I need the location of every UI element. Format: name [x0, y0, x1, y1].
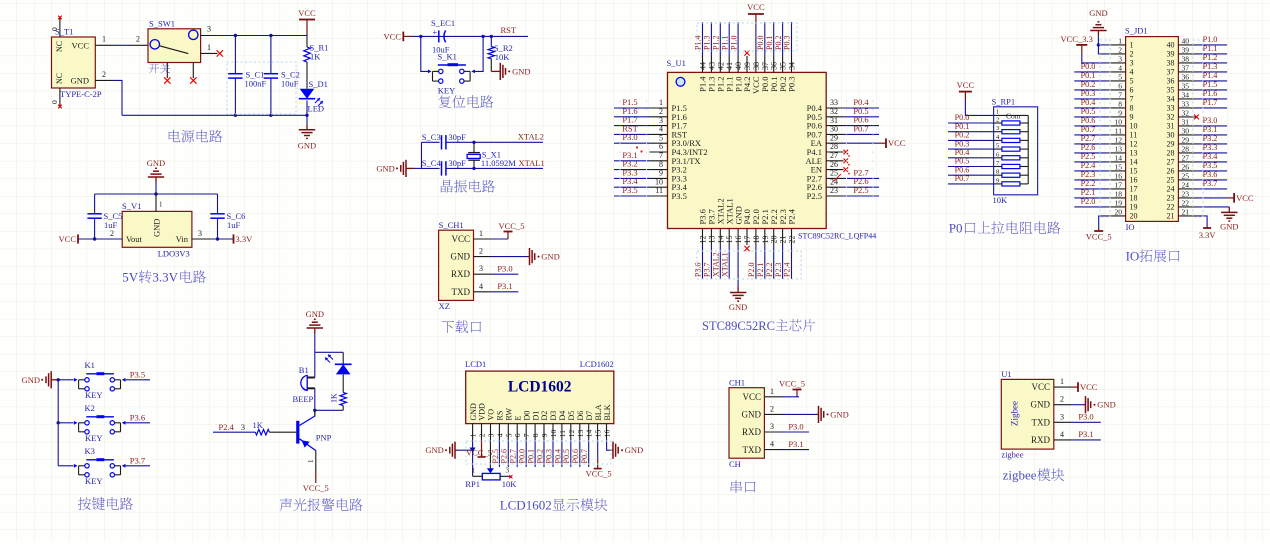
- svg-text:S_C4: S_C4: [422, 158, 442, 168]
- power port VCC LDO left: [59, 234, 78, 244]
- svg-text:9: 9: [996, 177, 999, 184]
- pin 16 BLK of LCD1602: [603, 404, 612, 439]
- node junction D1 bottom rail: [305, 100, 308, 124]
- svg-text:41: 41: [725, 62, 734, 70]
- crystal S_X1 11.0592M: [467, 142, 516, 168]
- svg-text:3: 3: [241, 423, 245, 432]
- wire alarm bottom junction: [313, 409, 343, 416]
- svg-text:1K: 1K: [330, 393, 339, 403]
- pin 7 left of S_JD1: [1074, 89, 1133, 104]
- svg-text:D4: D4: [558, 411, 567, 421]
- label STC89C52RC主芯片: [702, 319, 815, 333]
- svg-text:P0.5: P0.5: [1081, 107, 1096, 116]
- svg-text:2: 2: [110, 229, 114, 238]
- svg-text:21: 21: [779, 236, 788, 244]
- pin 2 GND serial: [764, 404, 848, 423]
- svg-text:P3.5: P3.5: [130, 370, 145, 380]
- svg-text:33: 33: [1167, 104, 1175, 113]
- svg-text:34: 34: [788, 62, 797, 70]
- svg-text:S_V1: S_V1: [122, 201, 141, 211]
- svg-text:RW: RW: [505, 408, 514, 421]
- capacitor S_C5 1uF: [87, 194, 122, 241]
- pin 35 right of S_JD1: [1167, 80, 1228, 95]
- svg-text:3.3V: 3.3V: [152, 270, 178, 285]
- pin 17 P4.0 bottom of U1: [742, 209, 752, 251]
- svg-text:P2.3: P2.3: [774, 263, 783, 277]
- svg-text:P0.3: P0.3: [787, 77, 797, 92]
- svg-text:8: 8: [531, 433, 540, 437]
- svg-text:GND: GND: [306, 309, 324, 319]
- pin 6 E of LCD1602: [509, 416, 523, 468]
- svg-text:38: 38: [1182, 54, 1190, 63]
- label 下载口: [441, 320, 481, 333]
- svg-text:27: 27: [1167, 158, 1175, 167]
- svg-text:GND: GND: [1031, 400, 1051, 410]
- svg-text:1: 1: [479, 229, 483, 238]
- svg-text:P3.2: P3.2: [1203, 134, 1218, 143]
- svg-text:1: 1: [659, 98, 663, 107]
- svg-text:21: 21: [1182, 207, 1190, 216]
- svg-text:16: 16: [603, 429, 612, 437]
- svg-text:D6: D6: [576, 411, 585, 421]
- svg-text:7: 7: [1130, 95, 1134, 104]
- svg-text:P3.3: P3.3: [1203, 143, 1218, 152]
- common rail of RP1: [1027, 115, 1029, 183]
- svg-text:P3.0: P3.0: [1203, 116, 1218, 125]
- svg-text:5V: 5V: [122, 270, 139, 285]
- svg-text:14: 14: [716, 236, 725, 244]
- pin 30 P0.7 right of U1: [807, 123, 879, 139]
- svg-text:16: 16: [734, 236, 743, 244]
- svg-text:8: 8: [1130, 104, 1134, 113]
- svg-text:S_SW1: S_SW1: [149, 19, 175, 29]
- svg-text:15: 15: [725, 236, 734, 244]
- pin 36 right of S_JD1: [1167, 71, 1228, 86]
- node junction C1 bottom: [234, 114, 237, 117]
- svg-text:XZ: XZ: [439, 301, 450, 311]
- pin 3 TXD zigbee P3.0: [1054, 412, 1101, 423]
- pin 42 P1.2 top of U1: [712, 22, 726, 92]
- svg-text:15: 15: [1115, 162, 1123, 171]
- pin 32 right of S_JD1: [1167, 108, 1199, 121]
- switch pin 3 to VCC rail: [201, 25, 218, 36]
- svg-text:33: 33: [1182, 99, 1190, 108]
- pin 34 right of S_JD1: [1167, 89, 1228, 104]
- key S_K1 reset button: [421, 36, 483, 95]
- pin 38 VCC top of U1: [747, 2, 765, 94]
- svg-text:3: 3: [770, 422, 774, 431]
- svg-text:P3.5: P3.5: [622, 185, 637, 195]
- resistor element 3 of RP1 net P0.1: [948, 122, 1028, 134]
- svg-text:1: 1: [159, 201, 163, 209]
- svg-text:P0.1: P0.1: [765, 36, 774, 50]
- svg-text:PNP: PNP: [316, 433, 332, 443]
- pin 13 P3.7 bottom of U1: [703, 209, 717, 279]
- svg-text:4: 4: [1130, 68, 1134, 77]
- svg-text:33: 33: [830, 98, 838, 107]
- svg-text:K2: K2: [85, 403, 95, 413]
- svg-text:GND: GND: [152, 219, 162, 237]
- svg-text:P3.5: P3.5: [1203, 161, 1218, 170]
- svg-text:1: 1: [996, 108, 999, 115]
- svg-text:34: 34: [1167, 95, 1175, 104]
- svg-text:P2.4: P2.4: [787, 208, 797, 224]
- svg-text:P3.7: P3.7: [703, 263, 712, 277]
- pin 37 right of S_JD1: [1167, 62, 1228, 77]
- wire XTAL1 net: [474, 158, 545, 168]
- svg-text:P3.1: P3.1: [788, 439, 803, 449]
- selection highlight U1 left pin labels: [620, 100, 873, 200]
- wire crystal left vertical: [414, 142, 422, 168]
- svg-text:VCC: VCC: [747, 2, 765, 12]
- svg-text:21: 21: [1167, 212, 1175, 221]
- svg-text:KEY: KEY: [85, 390, 102, 400]
- label 声光报警电路: [280, 498, 363, 511]
- wire LCD pin3 VO to potentiometer wiper: [487, 440, 494, 474]
- pin 5 RW of LCD1602: [500, 408, 514, 467]
- ground GND below U1: [729, 287, 747, 312]
- wire T1 VCC pin1 to switch pin2: [95, 35, 147, 46]
- svg-text:3: 3: [996, 125, 999, 132]
- pin 43 P1.3 top of U1: [703, 22, 717, 92]
- svg-text:P3.0: P3.0: [788, 421, 803, 431]
- svg-text:2: 2: [770, 404, 774, 413]
- svg-text:GND: GND: [742, 410, 762, 420]
- svg-text:P2.5: P2.5: [491, 449, 500, 463]
- svg-text:Vout: Vout: [126, 234, 143, 244]
- svg-text:30: 30: [1167, 131, 1175, 140]
- node junction C1 top: [234, 34, 237, 37]
- svg-text:P3.6: P3.6: [1203, 170, 1218, 179]
- node junction LDO GND: [154, 192, 157, 195]
- selection highlight JD1 right pins: [1193, 40, 1203, 217]
- svg-text:1K: 1K: [253, 420, 264, 430]
- svg-text:LCD1602: LCD1602: [508, 379, 572, 396]
- svg-text:39: 39: [1182, 45, 1190, 54]
- pin 14 D7 of LCD1602: [580, 411, 594, 467]
- svg-text:RXD: RXD: [451, 269, 471, 279]
- svg-text:P2.2: P2.2: [1081, 179, 1096, 188]
- svg-text:KEY: KEY: [85, 476, 102, 486]
- pin 26 right of S_JD1: [1167, 161, 1228, 176]
- svg-text:P3.5: P3.5: [672, 191, 687, 201]
- svg-text:P1.3: P1.3: [703, 36, 712, 50]
- svg-text:D7: D7: [585, 411, 594, 421]
- svg-text:19: 19: [1115, 198, 1123, 207]
- svg-text:S_JD1: S_JD1: [1125, 26, 1148, 36]
- pin 19 P2.1 bottom of U1: [756, 209, 770, 279]
- resistor S_R2 10K: [488, 35, 513, 72]
- power port 3.3V LDO right: [234, 234, 254, 244]
- label LCD1602显示模块: [500, 498, 608, 513]
- pin 1 GND of LCD1602: [469, 403, 478, 440]
- svg-text:GND: GND: [376, 163, 394, 173]
- pin 2 GND zigbee: [1054, 395, 1116, 414]
- svg-text:P1.3: P1.3: [1203, 62, 1218, 71]
- pin 18 left of S_JD1: [1074, 188, 1137, 203]
- svg-text:3: 3: [479, 264, 483, 273]
- pin 1 VCC to VCC_5: [474, 221, 525, 239]
- svg-text:zigbee: zigbee: [1001, 450, 1023, 460]
- svg-text:13: 13: [707, 236, 716, 244]
- svg-text:K3: K3: [85, 446, 95, 456]
- resistor network S_RP1 10K body: [992, 97, 1038, 206]
- pin 16 GND bottom of U1: [733, 206, 743, 287]
- svg-text:18: 18: [752, 236, 761, 244]
- pin 8 D1 of LCD1602: [527, 411, 541, 467]
- svg-text:23: 23: [830, 186, 838, 195]
- pin 4 TXD serial P3.1: [764, 439, 809, 450]
- potentiometer RP1 10K: [465, 450, 517, 489]
- svg-text:+: +: [433, 28, 438, 37]
- svg-text:VCC_5: VCC_5: [586, 469, 612, 479]
- pin 27 ALE right of U1: [805, 151, 849, 166]
- svg-text:P0.3: P0.3: [783, 36, 792, 50]
- svg-text:4: 4: [1060, 430, 1064, 439]
- pin 19 left of S_JD1: [1074, 197, 1137, 212]
- wire emitter to VCC_5: [303, 451, 329, 493]
- svg-text:P0.0: P0.0: [1081, 62, 1096, 71]
- svg-text:P0.6: P0.6: [571, 449, 580, 463]
- pin 6 P4.3/INT2 left of U1: [636, 142, 708, 157]
- node junction EC1 left: [419, 35, 422, 38]
- no-connect slash on pin 25 number: [833, 174, 841, 182]
- svg-text:CH1: CH1: [729, 377, 745, 387]
- svg-text:34: 34: [1182, 90, 1190, 99]
- svg-text:13: 13: [1130, 149, 1138, 158]
- svg-text:CH: CH: [729, 459, 741, 469]
- ground GND crystal: [376, 160, 414, 177]
- svg-text:37: 37: [1167, 68, 1175, 77]
- pin 4 RXD zigbee P3.1: [1054, 429, 1101, 440]
- svg-text:35: 35: [779, 62, 788, 70]
- node junction key right: [481, 35, 484, 38]
- label 晶振电路: [441, 180, 495, 193]
- svg-text:P0.3: P0.3: [1081, 89, 1096, 98]
- svg-text:24: 24: [1167, 185, 1175, 194]
- svg-text:12: 12: [1130, 140, 1138, 149]
- node junction GND pin1 S_JD1: [1097, 43, 1100, 46]
- svg-text:P3.1: P3.1: [497, 281, 512, 291]
- svg-text:1: 1: [1060, 377, 1064, 386]
- svg-text:2: 2: [1060, 395, 1064, 404]
- pin 22 right of S_JD1: [1167, 198, 1239, 231]
- svg-text:VCC_3.3: VCC_3.3: [1061, 34, 1093, 44]
- svg-text:P0.6: P0.6: [1081, 116, 1096, 125]
- IC U1 STC89C52RC_LQFP44 body: [667, 58, 877, 241]
- svg-text:11: 11: [558, 430, 567, 437]
- capacitor S_C4 30pF: [422, 158, 475, 176]
- label 5V转3.3V电路: [122, 270, 206, 285]
- pin 40 right of S_JD1: [1167, 35, 1228, 50]
- svg-text:18: 18: [1115, 189, 1123, 198]
- svg-text:K1: K1: [85, 360, 95, 370]
- svg-text:P1.1: P1.1: [1203, 44, 1218, 53]
- svg-text:10K: 10K: [495, 52, 511, 62]
- svg-text:9: 9: [659, 169, 663, 178]
- svg-text:10: 10: [1115, 117, 1123, 126]
- svg-text:TXD: TXD: [452, 287, 471, 297]
- pin 7 D0 of LCD1602: [518, 411, 532, 467]
- pin 0 bottom of S_T1: [50, 88, 62, 108]
- svg-text:14: 14: [585, 429, 594, 437]
- selection highlight LCD net labels: [466, 441, 611, 464]
- pin 3 RXD serial P3.0: [764, 421, 809, 432]
- pin 41 P1.1 top of U1: [720, 22, 734, 92]
- LED S_D1: [299, 79, 328, 114]
- svg-text:LCD1602: LCD1602: [580, 359, 614, 369]
- pin 35 P0.2 top of U1: [774, 22, 788, 92]
- svg-text:2: 2: [136, 35, 140, 44]
- svg-text:20: 20: [770, 236, 779, 244]
- svg-text:S_U1: S_U1: [667, 58, 686, 68]
- pin 12 P3.6 bottom of U1: [694, 209, 708, 279]
- svg-text:20: 20: [1115, 207, 1123, 216]
- svg-text:35: 35: [1167, 86, 1175, 95]
- svg-text:GND: GND: [1097, 400, 1115, 410]
- svg-text:P1.5: P1.5: [1203, 80, 1218, 89]
- svg-text:P0.0: P0.0: [756, 36, 765, 50]
- svg-text:40: 40: [734, 62, 743, 70]
- svg-text:P0.1: P0.1: [955, 122, 970, 131]
- pin 33 right of S_JD1: [1167, 98, 1228, 113]
- svg-text:LCD1: LCD1: [465, 359, 486, 369]
- wire keys GND rail vertical: [57, 378, 60, 466]
- svg-text:P0.2: P0.2: [955, 131, 970, 140]
- svg-text:26: 26: [1167, 167, 1175, 176]
- svg-text:2: 2: [996, 117, 999, 124]
- svg-text:19: 19: [1130, 203, 1138, 212]
- svg-text:2: 2: [478, 433, 487, 437]
- svg-text:P1.6: P1.6: [1203, 89, 1218, 98]
- svg-text:GND: GND: [147, 158, 165, 168]
- capacitor S_C6 1uF: [210, 194, 245, 241]
- svg-text:32: 32: [1167, 113, 1175, 122]
- svg-text:zigbee: zigbee: [1003, 468, 1037, 483]
- resistor S_R1 1K: [304, 36, 329, 89]
- svg-text:30pF: 30pF: [448, 132, 466, 142]
- svg-text:Vin: Vin: [176, 234, 189, 244]
- selection highlight chip top labels: [697, 23, 797, 51]
- wire reset top rail RST: [412, 25, 528, 36]
- pin 28 right of S_JD1: [1167, 143, 1228, 158]
- svg-text:4: 4: [659, 125, 663, 134]
- svg-text:P0.0: P0.0: [955, 113, 970, 122]
- pin 14 left of S_JD1: [1074, 152, 1137, 167]
- pin 9 P3.3 left of U1: [614, 167, 687, 183]
- label 开关: [149, 63, 170, 73]
- svg-text:P0.3: P0.3: [544, 449, 553, 463]
- svg-text:1: 1: [472, 467, 476, 475]
- regulator S_V1 LDO3V3: [122, 194, 192, 259]
- svg-text:2: 2: [102, 70, 106, 79]
- wire XTAL2 net: [474, 132, 544, 143]
- svg-text:P0.2: P0.2: [774, 36, 783, 50]
- svg-text:P1.1: P1.1: [720, 36, 729, 50]
- connector CH1 serial: [729, 377, 764, 469]
- svg-text:IO: IO: [1126, 222, 1135, 232]
- pin 26 EN right of U1: [811, 160, 850, 175]
- wire GND bottom rail: [122, 114, 307, 116]
- svg-text:14: 14: [1130, 158, 1138, 167]
- pin 13 D6 of LCD1602: [571, 411, 585, 467]
- svg-text:D3: D3: [549, 411, 558, 421]
- wire T1 GND pin2 down to bottom rail: [95, 70, 122, 116]
- svg-text:10: 10: [1130, 122, 1138, 131]
- svg-text:7: 7: [1118, 90, 1122, 99]
- svg-text:22: 22: [788, 236, 797, 244]
- wire VCC rail top: [218, 35, 308, 37]
- svg-text:VCC_5: VCC_5: [499, 221, 525, 231]
- svg-text:32: 32: [830, 107, 838, 116]
- switch S_SW1: [148, 19, 201, 63]
- svg-text:11: 11: [1115, 126, 1122, 135]
- label zigbee模块: [1003, 468, 1065, 483]
- svg-text:31: 31: [830, 116, 838, 125]
- svg-text:1K: 1K: [310, 52, 321, 62]
- svg-text:Zigbee: Zigbee: [1010, 401, 1020, 426]
- svg-text:3: 3: [659, 116, 663, 125]
- svg-text:VCC: VCC: [957, 80, 975, 90]
- svg-text:10: 10: [549, 429, 558, 437]
- svg-text:TXD: TXD: [743, 445, 762, 455]
- svg-text:9: 9: [1130, 113, 1134, 122]
- svg-text:13: 13: [576, 429, 585, 437]
- wire alarm top split: [315, 352, 343, 377]
- svg-text:VCC_5: VCC_5: [303, 483, 329, 493]
- pin 38 right of S_JD1: [1167, 53, 1228, 68]
- svg-text:29: 29: [830, 133, 838, 142]
- svg-text:3: 3: [1130, 59, 1134, 68]
- capacitor S_C3 30pF: [422, 132, 475, 150]
- pin 2 Vout wire to VCC: [78, 229, 122, 239]
- svg-text:P1.2: P1.2: [712, 36, 721, 50]
- svg-text:P0.7: P0.7: [955, 174, 970, 183]
- label IO拓展口: [1126, 249, 1180, 264]
- svg-text:24: 24: [1182, 180, 1190, 189]
- svg-text:P2.7: P2.7: [1081, 134, 1096, 143]
- svg-text:VCC_5: VCC_5: [1086, 232, 1112, 242]
- svg-text:28: 28: [1167, 149, 1175, 158]
- svg-text:5: 5: [659, 133, 663, 142]
- pin 6 left of S_JD1: [1074, 80, 1133, 95]
- svg-text:2: 2: [479, 247, 483, 256]
- svg-text:P3.1: P3.1: [1078, 429, 1093, 439]
- pin 11 D4 of LCD1602: [553, 411, 567, 467]
- svg-text:6: 6: [659, 142, 663, 151]
- ground GND reset: [491, 63, 530, 80]
- svg-text:40: 40: [1182, 36, 1190, 45]
- svg-text:1: 1: [1130, 41, 1134, 50]
- svg-text:XTAL2: XTAL2: [518, 132, 544, 142]
- svg-text:12: 12: [1115, 135, 1123, 144]
- svg-text:BLK: BLK: [603, 404, 612, 420]
- svg-text:RP1: RP1: [465, 479, 480, 489]
- svg-text:36: 36: [1167, 77, 1175, 86]
- svg-text:VCC: VCC: [1080, 382, 1098, 392]
- IC LCD1 LCD1602 body: [465, 359, 614, 424]
- svg-text:P0: P0: [949, 221, 963, 236]
- switch bottom stubs no connect: [164, 63, 196, 84]
- svg-text:28: 28: [1182, 144, 1190, 153]
- pin 39 P4.2 top of U1: [742, 50, 752, 91]
- svg-text:25: 25: [1182, 171, 1190, 180]
- svg-text:P0.5: P0.5: [955, 157, 970, 166]
- pin 39 right of S_JD1: [1167, 44, 1228, 59]
- svg-text:P0.4: P0.4: [955, 148, 970, 157]
- resistor element 9 of RP1 net P0.7: [948, 174, 1028, 186]
- svg-text:12: 12: [699, 236, 708, 244]
